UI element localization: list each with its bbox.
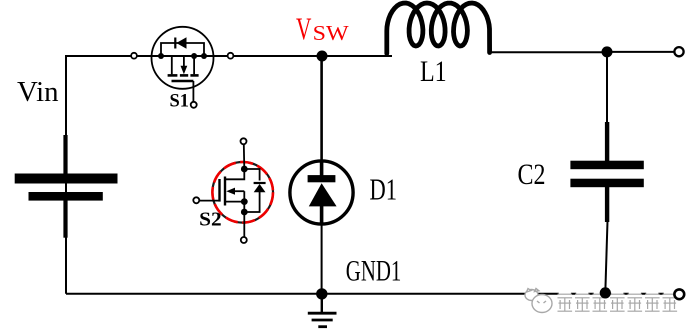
svg-text:S1: S1 bbox=[170, 90, 190, 111]
svg-text:L1: L1 bbox=[420, 55, 447, 88]
S2 top open terminal bbox=[241, 138, 247, 144]
S2 body diode cathode bar bbox=[254, 182, 266, 184]
D1 triangle bbox=[309, 183, 337, 206]
S1 body-diode rail bbox=[161, 43, 204, 56]
wire into S1 bbox=[137, 55, 228, 57]
node C2 bottom dot bbox=[600, 287, 611, 298]
battery Vin bbox=[15, 135, 118, 238]
mosfet S1 bbox=[152, 27, 214, 108]
wire node to output terminal bbox=[607, 51, 674, 53]
S2 bulk down lead bbox=[243, 191, 245, 201]
S2 junction dot top bbox=[241, 166, 248, 173]
capacitor C2 bbox=[570, 122, 643, 222]
S1 channel bar left bbox=[168, 74, 178, 77]
S1 body-diode triangle bbox=[176, 37, 186, 48]
wire C2 top lead thin bbox=[606, 52, 608, 123]
S2 gate bar bbox=[218, 179, 220, 202]
S2 junction dot source bbox=[241, 198, 248, 205]
S1 junction dot diode bbox=[201, 53, 207, 59]
svg-text:V: V bbox=[296, 11, 311, 47]
S2 body diode triangle bbox=[254, 184, 266, 192]
S1 body circle bbox=[152, 27, 214, 89]
wire VSW to inductor bbox=[322, 55, 392, 57]
node bottom output open terminal bbox=[674, 289, 684, 299]
S2 bulk arrowhead bbox=[226, 188, 235, 195]
wire C2 bottom lead thin bbox=[605, 221, 607, 293]
S1 junction dot drain bbox=[158, 53, 164, 59]
wire bottom rail bbox=[66, 293, 674, 295]
watermark icon bbox=[525, 289, 552, 313]
node ground junction dot bbox=[316, 288, 327, 299]
ground bbox=[308, 294, 337, 327]
S2 body diode top lead bbox=[244, 169, 259, 181]
S1 gate lead bbox=[192, 81, 194, 102]
S2 source stub bbox=[226, 201, 244, 203]
S2 junction dot diode bbox=[241, 209, 248, 216]
inductor L1 bbox=[387, 3, 490, 54]
svg-text:SW: SW bbox=[313, 21, 350, 45]
S2 body diode bottom lead bbox=[244, 192, 259, 212]
S2 source down wire bbox=[243, 202, 245, 237]
S1 drain lead bbox=[161, 56, 172, 74]
wire top left bbox=[65, 55, 131, 57]
S2 gate open terminal bbox=[193, 197, 199, 203]
wire S1 to VSW bbox=[234, 55, 323, 57]
watermark text 硬件工程师看海 bbox=[558, 291, 678, 313]
D1 lead bottom bbox=[320, 205, 324, 225]
node output junction bbox=[602, 46, 613, 57]
S1 gate plate bbox=[172, 80, 194, 82]
svg-text:GND1: GND1 bbox=[346, 255, 402, 288]
S2 bulk arrow stub bbox=[235, 190, 245, 192]
node left open terminal bbox=[131, 53, 137, 59]
S2 highlight circle black base bbox=[212, 162, 273, 223]
wire inductor to output node bbox=[490, 51, 608, 53]
svg-text:D1: D1 bbox=[370, 172, 398, 207]
svg-text:S2: S2 bbox=[199, 208, 222, 230]
node right open terminal of S1 bbox=[228, 53, 234, 59]
S1 channel bar middle bbox=[180, 74, 188, 77]
diode D1 bbox=[290, 160, 353, 225]
node output open terminal top bbox=[674, 47, 683, 56]
wire VSW down to D1 bbox=[320, 56, 323, 162]
S1 body-diode cathode bar bbox=[174, 38, 176, 49]
S1 source lead bbox=[193, 56, 195, 74]
S1 bulk arrow lead bbox=[183, 56, 185, 68]
S2 channel bar bbox=[224, 177, 226, 206]
S1 junction dot source bbox=[191, 53, 197, 59]
S2 drain stub bbox=[226, 168, 244, 179]
node VSW dot bbox=[317, 51, 328, 62]
wire D1 to ground node bbox=[321, 224, 323, 294]
wire left rail top bbox=[65, 56, 67, 294]
S2 bottom open terminal bbox=[241, 237, 247, 243]
S1 bulk arrowhead bbox=[181, 66, 188, 75]
S1 channel bar right bbox=[190, 74, 198, 77]
mosfet S2 bbox=[193, 138, 273, 243]
S2 drain wire bbox=[243, 144, 246, 169]
S2 gate lead bbox=[199, 200, 219, 202]
D1 cathode bar bbox=[308, 175, 336, 182]
svg-text:C2: C2 bbox=[518, 158, 546, 191]
D1 circle bbox=[290, 161, 353, 224]
D1 lead top bbox=[320, 160, 324, 178]
S1 gate open terminal bbox=[191, 102, 197, 108]
svg-text:Vin: Vin bbox=[17, 76, 59, 108]
S2 highlight circle red bbox=[212, 162, 273, 223]
